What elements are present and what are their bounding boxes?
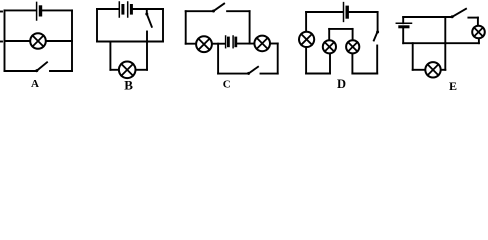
wire D left vertical lower <box>305 48 307 74</box>
wire C middle: lamp2 to right corner <box>271 43 278 45</box>
wire C bottom stub vertical <box>217 44 219 74</box>
svg-text:B: B <box>124 78 133 93</box>
wire D left vertical upper <box>305 12 307 31</box>
wire E left vertical upper <box>402 17 404 23</box>
wire B lamp loop left vertical <box>109 42 111 70</box>
battery B two cells <box>119 2 131 17</box>
switch C top open blade <box>212 4 224 13</box>
wire C top-right segment <box>227 10 250 12</box>
wire E top-right segment <box>468 17 478 19</box>
lamp C right <box>254 36 270 52</box>
wire D bottom U1 horizontal <box>306 73 330 75</box>
svg-text:C: C <box>223 78 231 90</box>
edge mark middle <box>0 41 2 43</box>
edge mark top <box>0 11 2 13</box>
wire A top-left segment <box>5 9 36 11</box>
battery A single cell <box>37 2 41 20</box>
wire E switch-branch lower vertical <box>444 43 446 70</box>
wire C right vertical <box>277 44 279 74</box>
lamp B <box>119 62 136 79</box>
wire D inner loop top horizontal <box>329 28 352 30</box>
wire A middle-right segment <box>47 40 72 42</box>
wire D top-right segment <box>349 11 377 13</box>
switch B open blade <box>145 13 152 27</box>
wire B lamp loop bottom-right <box>136 69 147 71</box>
lamp C left <box>196 36 212 52</box>
wire C middle: lamp1 to battery <box>213 43 225 45</box>
wire B top-left segment <box>97 8 118 10</box>
wire D inner loop right vertical <box>352 29 354 39</box>
switch C bottom open blade <box>247 67 258 75</box>
wire D U2 left vertical <box>351 54 353 73</box>
lamp D middle-right <box>346 40 359 53</box>
wire C middle: battery to lamp2 <box>237 43 254 45</box>
wire C left vertical <box>185 11 187 44</box>
svg-text:A: A <box>31 78 39 90</box>
wire E right upper stub <box>477 18 479 25</box>
wire D top-left segment <box>306 11 343 13</box>
wire B top-right segment <box>133 8 163 10</box>
svg-text:D: D <box>337 77 346 91</box>
wire B switch lower vertical <box>146 32 148 70</box>
wire A top-right segment <box>43 9 72 11</box>
lamp E bottom <box>425 62 440 77</box>
wire D bottom U2 horizontal <box>352 73 377 75</box>
wire C middle: corner to lamp1 <box>186 43 196 45</box>
wire E switch stub vertical <box>444 17 446 43</box>
wire D U2 right vertical <box>376 46 378 74</box>
wire C top-left segment <box>186 10 214 12</box>
wire E top-left segment <box>403 16 452 18</box>
wire A bottom-right segment <box>50 70 72 72</box>
wire E lamp loop left vertical <box>412 43 414 70</box>
wire C bottom-left segment <box>218 73 248 75</box>
wire A bottom-left segment <box>5 70 37 72</box>
wire B right vertical <box>162 9 164 42</box>
switch A open blade <box>35 62 47 72</box>
wire D right vertical upper <box>377 12 379 32</box>
wire C upper-right vertical <box>249 11 251 43</box>
wire A left vertical <box>4 10 6 71</box>
switch B stub from top wire <box>146 9 148 14</box>
lamp D middle-left <box>323 40 336 53</box>
lamp E right <box>472 26 485 39</box>
wire B left vertical <box>96 9 98 42</box>
wire E middle horizontal <box>403 42 479 44</box>
wire C bottom-right segment <box>261 73 278 75</box>
lamp A <box>30 33 46 49</box>
switch D open blade <box>374 31 379 41</box>
wire B middle horizontal <box>97 41 163 43</box>
battery E single cell horizontal <box>396 23 411 27</box>
wire A right vertical <box>71 10 73 71</box>
battery D single cell <box>344 3 348 22</box>
wire E left vertical lower <box>402 28 404 43</box>
lamp D left <box>299 32 314 47</box>
wire D inner loop left vertical <box>328 29 330 39</box>
wire B lamp loop bottom-left <box>110 69 118 71</box>
battery C two cells <box>226 36 236 48</box>
svg-text:E: E <box>449 79 457 92</box>
wire E right lower stub <box>478 39 480 43</box>
wire D U1 right vertical <box>329 54 331 73</box>
wire A middle-left segment <box>5 40 29 42</box>
switch E open blade <box>451 9 466 18</box>
wire E lamp loop bottom-right <box>442 69 446 71</box>
wire E lamp loop bottom-left <box>413 69 425 71</box>
